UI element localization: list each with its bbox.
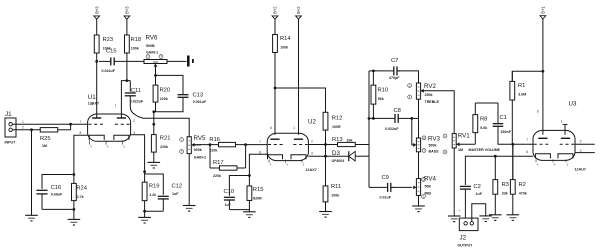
RV5 wiper arrow bbox=[191, 143, 194, 147]
svg-text:7: 7 bbox=[80, 120, 82, 124]
wire R17 right riser to R16 node bbox=[245, 145, 247, 168]
wire U2 pin8 to R15/C10 bbox=[249, 154, 267, 185]
capacitor C13 0.001uF bbox=[178, 93, 207, 112]
svg-text:50K: 50K bbox=[425, 184, 432, 188]
capacitor C7 470pF bbox=[389, 58, 400, 80]
resistor R21 220k bbox=[151, 124, 170, 162]
svg-text:R1: R1 bbox=[518, 83, 525, 89]
svg-text:MID: MID bbox=[425, 191, 432, 195]
svg-text:1uF: 1uF bbox=[172, 192, 179, 196]
svg-text:BASS: BASS bbox=[429, 149, 440, 153]
wire R14 node to R12 top bbox=[275, 88, 326, 112]
wire R25 right up to pin1 wire bbox=[70, 124, 72, 130]
wire B+2 right port to U2 right plate bbox=[298, 19, 300, 135]
resistor R8 5.6k bbox=[473, 103, 488, 144]
wire C13 bottom to R20 bottom node bbox=[154, 98, 183, 112]
resistor R25 1M bbox=[40, 128, 71, 148]
svg-text:100k: 100k bbox=[331, 194, 339, 198]
svg-text:1: 1 bbox=[115, 103, 117, 107]
svg-text:C16: C16 bbox=[51, 185, 62, 191]
wire C10 top bbox=[229, 176, 249, 196]
wire C8 to RV2 bottom / RV3 top column bbox=[412, 117, 419, 119]
junction grid wire / R1 / R2 bbox=[511, 143, 514, 146]
triode U3 12AU7 bbox=[526, 100, 586, 171]
junction RV6 wiper / R20 / C13 bbox=[154, 74, 157, 77]
svg-text:0.022uF: 0.022uF bbox=[385, 127, 399, 131]
svg-text:C11: C11 bbox=[131, 88, 141, 94]
svg-text:R15: R15 bbox=[253, 187, 264, 193]
wire R18 lead down to plate jog bbox=[121, 61, 127, 118]
capacitor C9 0.01uF bbox=[380, 175, 395, 199]
svg-text:R2: R2 bbox=[519, 182, 526, 188]
wire U3 right plate stub bbox=[564, 125, 566, 135]
wire RV3 wiper drop bbox=[412, 118, 414, 144]
svg-text:2: 2 bbox=[22, 126, 24, 130]
power port B+1 (U3) bbox=[540, 6, 546, 19]
wire C1 bottom to U3 grid wire bbox=[498, 126, 533, 144]
svg-text:B+3: B+3 bbox=[125, 6, 130, 14]
wire R1 bottom / R2 column bbox=[512, 144, 514, 179]
potentiometer RV5 GAIN-2 500k bbox=[180, 135, 206, 160]
wire C12 top bracket bbox=[145, 172, 164, 195]
svg-text:INPUT: INPUT bbox=[5, 141, 17, 145]
wire U1 left plate from C15 node bbox=[96, 61, 98, 118]
svg-text:C15: C15 bbox=[106, 48, 117, 54]
wire U3 cathode pin8 / C2 / R3 bbox=[465, 156, 533, 185]
resistor R18 100k bbox=[125, 19, 142, 61]
svg-text:MASTER VOLUME: MASTER VOLUME bbox=[469, 148, 501, 152]
wire U1 pin8 to R24/C16 bbox=[74, 135, 88, 174]
svg-text:56k: 56k bbox=[378, 97, 384, 101]
junction R23/C15/plate bbox=[95, 60, 98, 63]
resistor R23 100k bbox=[94, 19, 113, 61]
svg-text:0.68uF: 0.68uF bbox=[51, 193, 63, 197]
junction C16/R24 bottom bbox=[73, 208, 76, 211]
svg-text:220k: 220k bbox=[213, 174, 221, 178]
wire C7 feed bbox=[369, 70, 391, 72]
junction rail / C8 wire bbox=[368, 117, 371, 120]
svg-text:500B: 500B bbox=[146, 44, 155, 48]
wire U3 pin2 out bbox=[575, 143, 595, 145]
potentiometer RV6 GAIN-1 500B bbox=[144, 35, 167, 64]
svg-text:470pF: 470pF bbox=[389, 76, 400, 80]
potentiometer RV4 MID 50K bbox=[416, 175, 436, 198]
svg-text:C7: C7 bbox=[391, 58, 398, 64]
wire RV4 bottom to ground bbox=[418, 195, 420, 206]
svg-text:GAIN-2: GAIN-2 bbox=[194, 156, 206, 160]
svg-text:R20: R20 bbox=[160, 88, 171, 94]
svg-text:2.7k: 2.7k bbox=[77, 195, 84, 199]
svg-text:RV4: RV4 bbox=[424, 175, 436, 182]
wire R17 left riser bbox=[209, 145, 211, 168]
junction pin2/R21 bbox=[152, 123, 155, 126]
svg-text:7: 7 bbox=[526, 138, 528, 142]
ground (J2) bbox=[479, 216, 492, 222]
junction pin3/R19/C12 bbox=[143, 170, 146, 173]
svg-text:R14: R14 bbox=[280, 36, 291, 42]
ground (R21) bbox=[148, 162, 161, 168]
wire R14 node down to U2 left plate bbox=[274, 88, 276, 135]
ground (J1) bbox=[25, 215, 38, 221]
svg-text:0.01uF: 0.01uF bbox=[380, 195, 392, 199]
svg-text:C1: C1 bbox=[500, 115, 507, 121]
wire C7 right to RV2 top bbox=[398, 71, 418, 83]
svg-text:1: 1 bbox=[561, 120, 563, 124]
potentiometer RV3 BASS 500k bbox=[416, 135, 440, 153]
svg-text:33k: 33k bbox=[502, 192, 508, 196]
svg-text:B+1: B+1 bbox=[541, 6, 546, 14]
junction pin8/C16/R24 bbox=[73, 173, 76, 176]
wire R15 to ground bbox=[248, 210, 250, 212]
svg-text:RV6: RV6 bbox=[146, 35, 158, 42]
wire C10 bottom to R15 bbox=[229, 209, 249, 211]
junction R10 bottom / C8 wire bbox=[372, 117, 375, 120]
RV3 wiper arrow bbox=[413, 143, 416, 147]
wire R1 top bbox=[512, 71, 543, 81]
wire U2 pin3 cathode wire bbox=[308, 155, 325, 157]
svg-text:2: 2 bbox=[580, 139, 582, 143]
capacitor C16 0.68uF bbox=[36, 185, 63, 209]
power port B+3 (R18) bbox=[124, 6, 130, 19]
svg-text:C9: C9 bbox=[382, 175, 389, 181]
svg-text:C10: C10 bbox=[224, 189, 235, 195]
junction B+1 / R1 bbox=[542, 70, 545, 73]
wire C11 bottom to RV5 top bbox=[138, 117, 189, 137]
wire C11 top jog bbox=[127, 80, 130, 82]
power port B+2 (R14) bbox=[272, 6, 278, 19]
svg-text:1uF: 1uF bbox=[476, 192, 483, 196]
wire C12 bottom to R19 bbox=[145, 210, 164, 212]
svg-text:C12: C12 bbox=[172, 184, 183, 190]
svg-text:1M: 1M bbox=[42, 144, 47, 148]
power port B+3 (R23) bbox=[94, 6, 100, 19]
svg-text:J2: J2 bbox=[460, 235, 467, 242]
resistor R14 100k bbox=[273, 19, 292, 88]
ground (R24/C16) bbox=[68, 219, 81, 225]
wire J1 pin2 to R25 bbox=[12, 129, 40, 131]
resistor R12 100R bbox=[323, 112, 342, 144]
svg-text:2: 2 bbox=[311, 139, 313, 143]
junction J1 pin2 / ground drop bbox=[30, 128, 33, 131]
wire RV2 bottom to RV3 top bbox=[418, 99, 420, 138]
potentiometer RV1 MASTER VOLUME 1M bbox=[443, 133, 501, 155]
junction R16 wire / R17 left bbox=[209, 143, 212, 146]
svg-text:8: 8 bbox=[526, 150, 528, 154]
svg-text:R25: R25 bbox=[40, 136, 51, 142]
svg-text:B+2: B+2 bbox=[273, 6, 278, 14]
wire J1 pin2 ground drop bbox=[31, 130, 33, 216]
svg-text:R3: R3 bbox=[502, 182, 509, 188]
junction grid2/R12/R13 bbox=[324, 143, 327, 146]
svg-text:100k: 100k bbox=[280, 46, 288, 50]
resistor R16 220k bbox=[195, 137, 268, 152]
capacitor C2 1uF bbox=[459, 184, 483, 218]
svg-text:RV3: RV3 bbox=[428, 135, 440, 142]
wire J1 pin1 to U1 grid pin7 bbox=[12, 123, 87, 125]
resistor R10 56k bbox=[371, 71, 388, 119]
svg-text:1: 1 bbox=[22, 120, 24, 124]
svg-text:250k: 250k bbox=[425, 93, 433, 97]
svg-text:1: 1 bbox=[293, 126, 295, 130]
svg-text:220k: 220k bbox=[160, 145, 168, 149]
connector J2 OUTPUT bbox=[458, 218, 479, 247]
junction pin3/R11/D3 bbox=[324, 155, 327, 158]
svg-text:RV2: RV2 bbox=[424, 83, 436, 90]
svg-text:RV1: RV1 bbox=[458, 133, 470, 140]
resistor R24 2.7k bbox=[72, 175, 88, 210]
svg-text:1.2k: 1.2k bbox=[149, 193, 156, 197]
resistor R17 220k bbox=[210, 160, 246, 178]
wire R24 to ground bbox=[73, 209, 75, 219]
ground (R11) bbox=[319, 212, 332, 218]
svg-text:8: 8 bbox=[80, 131, 82, 135]
svg-text:10k: 10k bbox=[347, 139, 353, 143]
junction C8 wire / RV3 wiper drop bbox=[410, 117, 413, 120]
svg-text:D3: D3 bbox=[332, 150, 340, 157]
RV6 wiper arrow and stem bbox=[154, 64, 158, 67]
capacitor C1 330nF bbox=[493, 103, 512, 134]
junction R14/R12 feed bbox=[274, 87, 277, 90]
svg-text:R8: R8 bbox=[480, 117, 487, 123]
svg-text:R11: R11 bbox=[331, 184, 341, 190]
resistor R2 470k bbox=[510, 144, 526, 215]
svg-text:2: 2 bbox=[133, 119, 135, 123]
resistor R19 1.2k bbox=[142, 172, 159, 212]
ground (R2) bbox=[507, 215, 520, 221]
wire C16 top bracket bbox=[42, 175, 74, 189]
svg-text:R16: R16 bbox=[209, 137, 220, 143]
capacitor C8 0.022uF bbox=[369, 108, 412, 131]
svg-text:TREBLE: TREBLE bbox=[425, 100, 440, 104]
svg-text:470k: 470k bbox=[519, 192, 527, 196]
ground (RV1) bbox=[448, 216, 461, 222]
svg-text:0.022uF: 0.022uF bbox=[130, 99, 144, 103]
wire U3 pin3 out bbox=[575, 152, 595, 154]
wire U1 pin3 to R19/C12 bbox=[131, 135, 145, 172]
svg-text:U2: U2 bbox=[308, 118, 316, 125]
resistor R1 3.6M bbox=[510, 71, 526, 144]
svg-text:6: 6 bbox=[537, 110, 539, 114]
svg-text:+: + bbox=[459, 209, 461, 213]
potentiometer RV2 TREBLE 250k bbox=[408, 83, 440, 104]
resistor R11 100k bbox=[323, 156, 341, 211]
RV2 wiper arrow and wire to RV1 top bbox=[421, 89, 424, 93]
power port B+2 (U2 plate) bbox=[296, 6, 302, 19]
svg-text:R10: R10 bbox=[378, 88, 389, 94]
wire B+1 down to U3 plate bbox=[542, 19, 544, 135]
RV4 wiper arrow bbox=[413, 186, 416, 190]
junction R19/C12 bottom bbox=[143, 210, 146, 213]
capacitor C15 0.022uF bbox=[99, 48, 144, 73]
svg-text:R13: R13 bbox=[332, 137, 343, 143]
wire RV3 bottom to RV4 top bbox=[418, 152, 420, 179]
svg-text:U1: U1 bbox=[88, 94, 96, 101]
wire RV6 right to chassis ground bbox=[167, 60, 187, 62]
svg-text:R18: R18 bbox=[131, 37, 142, 43]
wire C9 feed from rail bbox=[369, 186, 385, 188]
svg-text:B+3: B+3 bbox=[94, 6, 99, 14]
svg-text:100k: 100k bbox=[131, 47, 139, 51]
svg-text:R23: R23 bbox=[103, 37, 114, 43]
connector J1 INPUT bbox=[5, 111, 25, 145]
junction cathode wire / R3 bbox=[494, 155, 497, 158]
svg-text:R17: R17 bbox=[213, 160, 224, 166]
wire grid2 node down to pin2 wire bbox=[153, 112, 155, 125]
ground (RV4) bbox=[412, 206, 425, 212]
svg-text:3: 3 bbox=[133, 131, 135, 135]
junction R25/pin1 wire bbox=[69, 123, 72, 126]
wire RV5 wiper to R16 bbox=[195, 144, 202, 146]
RV1 wiper arrow and wire to R8 bbox=[456, 142, 459, 146]
diode D3 UF4004 bbox=[326, 150, 370, 163]
svg-text:C8: C8 bbox=[394, 108, 401, 114]
ground (R3) bbox=[489, 215, 502, 221]
svg-text:330nF: 330nF bbox=[501, 130, 512, 134]
svg-text:100R: 100R bbox=[332, 125, 341, 129]
wire R8/C1 top bracket bbox=[475, 102, 498, 104]
svg-text:500: 500 bbox=[153, 60, 158, 64]
wire RV5 bottom to ground bbox=[188, 154, 190, 206]
svg-text:220k: 220k bbox=[160, 97, 168, 101]
junction R20/C13/grid2 node bbox=[152, 110, 155, 113]
svg-text:7: 7 bbox=[259, 140, 261, 144]
svg-text:220k: 220k bbox=[209, 148, 217, 152]
svg-text:12AX7: 12AX7 bbox=[88, 102, 99, 106]
svg-text:R21: R21 bbox=[160, 136, 171, 142]
chassis ground (RV6) bbox=[187, 56, 194, 67]
wire junction down to pin3 wire bbox=[325, 145, 327, 157]
wire R19 to ground bbox=[144, 211, 146, 217]
svg-text:6: 6 bbox=[270, 126, 272, 130]
svg-text:J1: J1 bbox=[5, 111, 12, 118]
wire tone stack rail bbox=[368, 71, 370, 187]
svg-text:3: 3 bbox=[311, 151, 313, 155]
ground (RV5) bbox=[183, 206, 196, 212]
wire U2 pin2 to R12/R13 node bbox=[308, 144, 337, 146]
svg-text:R24: R24 bbox=[76, 185, 87, 191]
wire RV1 bottom to ground bbox=[453, 148, 455, 216]
junction pin8 wire / C10 tap bbox=[248, 174, 251, 177]
triode U1 12AX7 bbox=[80, 94, 136, 148]
junction R18/C11/plate1 bbox=[126, 79, 129, 82]
wire J2 pin2 to chassis ground bbox=[472, 204, 486, 222]
svg-text:3.6M: 3.6M bbox=[518, 93, 526, 97]
svg-text:R19: R19 bbox=[149, 184, 160, 190]
triode U2 12AX7 bbox=[259, 118, 316, 172]
resistor R20 220k bbox=[153, 75, 170, 111]
svg-text:UF4004: UF4004 bbox=[332, 159, 345, 163]
svg-text:OUTPUT: OUTPUT bbox=[458, 244, 474, 248]
resistor R13 10k bbox=[326, 137, 370, 147]
resistor R15 820R bbox=[247, 185, 263, 209]
svg-text:500k: 500k bbox=[194, 148, 202, 152]
ground (R19/C12) bbox=[138, 217, 151, 223]
svg-text:12AU7: 12AU7 bbox=[575, 167, 586, 171]
wire C16 bottom to R24 bottom bbox=[42, 208, 74, 210]
junction C7 wire / R10 top bbox=[372, 70, 375, 73]
svg-text:B+2: B+2 bbox=[296, 6, 301, 14]
capacitor C12 1uF bbox=[158, 184, 182, 212]
svg-text:5.6k: 5.6k bbox=[480, 126, 487, 130]
resistor R3 33k bbox=[493, 156, 509, 215]
svg-text:C2: C2 bbox=[474, 184, 481, 190]
svg-text:0.022uF: 0.022uF bbox=[102, 69, 116, 73]
svg-text:R12: R12 bbox=[332, 115, 343, 121]
svg-text:0.001uF: 0.001uF bbox=[193, 100, 207, 104]
ground (R15/C10) bbox=[243, 212, 256, 218]
svg-text:12AX7: 12AX7 bbox=[306, 168, 317, 172]
capacitor C10 1uF bbox=[224, 189, 235, 209]
svg-text:1uF: 1uF bbox=[225, 203, 232, 207]
svg-text:U3: U3 bbox=[569, 100, 577, 107]
junction R16 wire / R17 riser bbox=[244, 143, 247, 146]
svg-text:1M: 1M bbox=[458, 148, 463, 152]
svg-text:820R: 820R bbox=[253, 196, 262, 200]
wire C9 right to RV4 wiper bbox=[393, 186, 412, 188]
wire wiper node to C13 top bbox=[156, 75, 184, 93]
svg-text:500k: 500k bbox=[429, 143, 437, 147]
capacitor C11 0.022uF bbox=[125, 81, 144, 117]
svg-text:RV5: RV5 bbox=[194, 135, 206, 142]
svg-text:C13: C13 bbox=[193, 93, 204, 99]
